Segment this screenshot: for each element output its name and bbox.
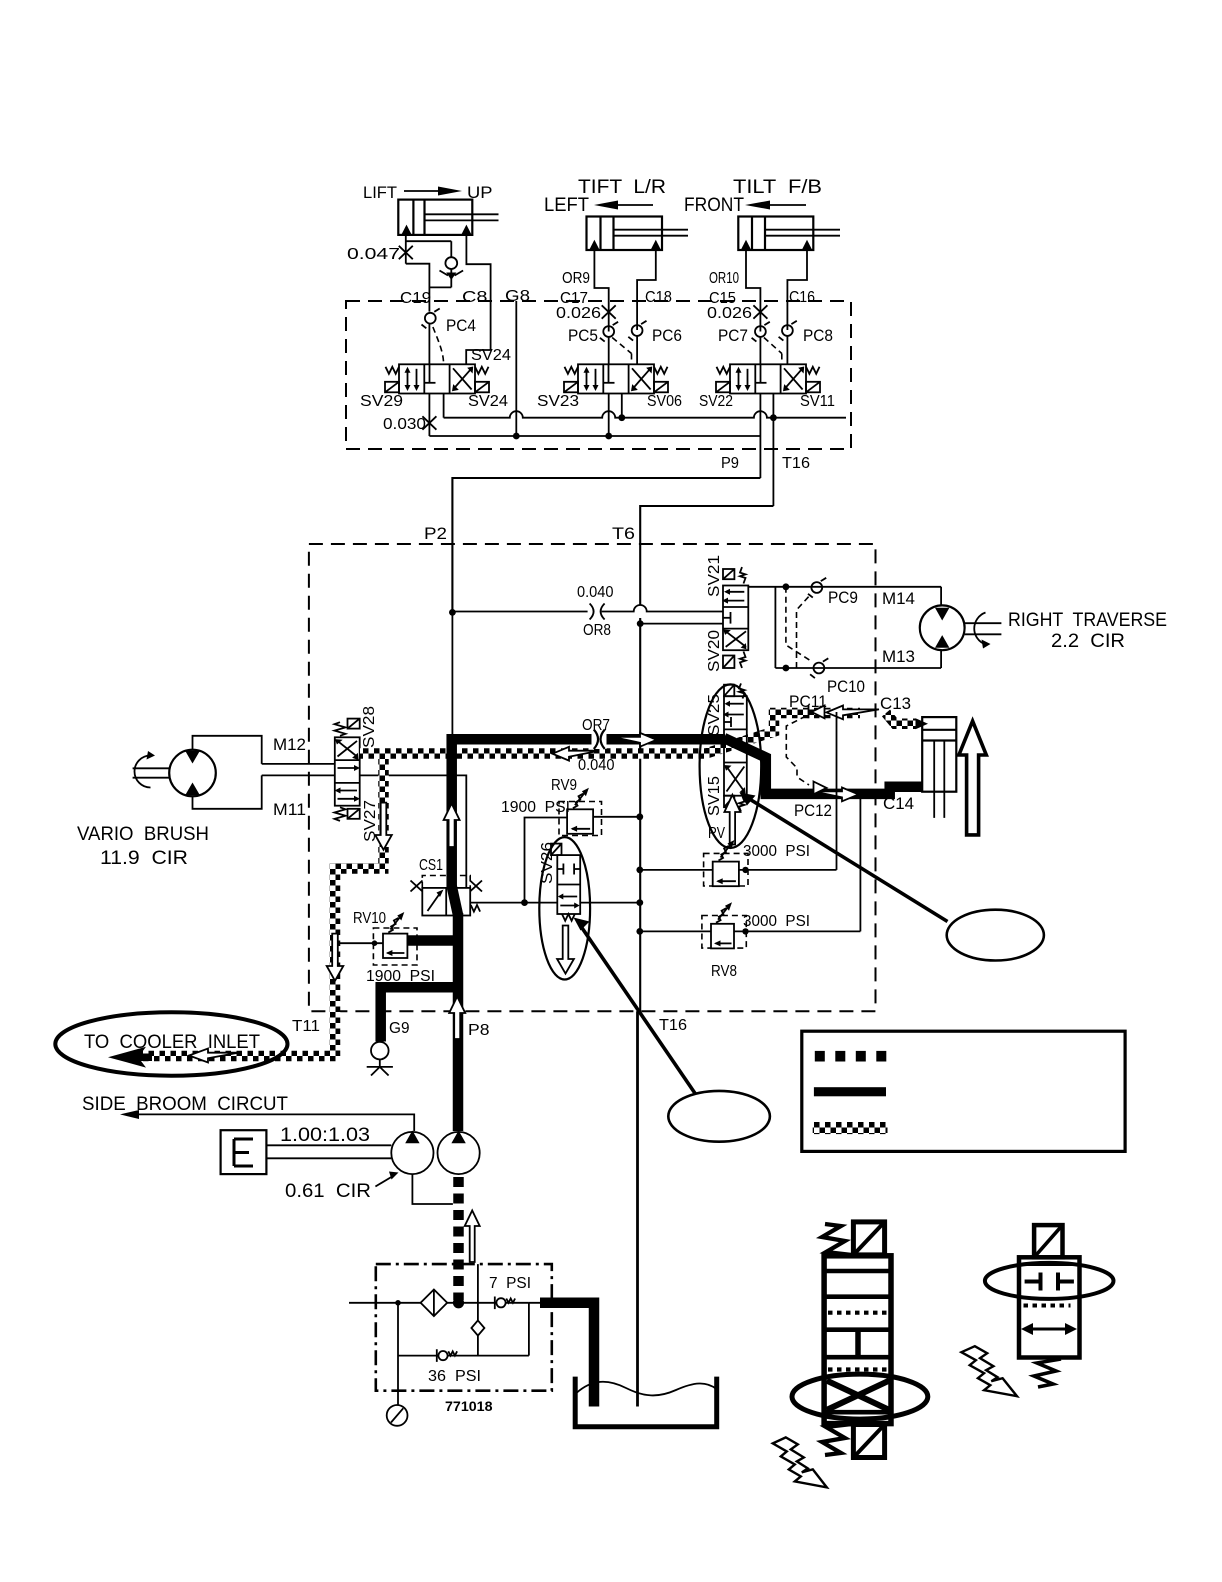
node dots T6 branches: [636, 813, 643, 820]
svg-text:PC11: PC11: [789, 692, 827, 711]
arrow up (in SV15 ellipse): [724, 795, 740, 845]
bus P9 (top manifold): [429, 435, 760, 437]
svg-text:C14: C14: [883, 794, 914, 813]
svg-text:OR7: OR7: [582, 717, 610, 734]
svg-text:RV10: RV10: [353, 910, 386, 927]
wire M11 through to CS1: [360, 775, 467, 888]
orifice OR7: [592, 730, 607, 750]
pump 2 (main): [438, 1131, 480, 1175]
svg-text:M13: M13: [882, 647, 915, 666]
svg-text:C16: C16: [789, 289, 815, 306]
svg-text:LIFT: LIFT: [363, 183, 397, 202]
ellipse TO COOLER INLET: [55, 1012, 287, 1075]
ellipse around SV26: [539, 837, 590, 979]
tank: [575, 1377, 717, 1427]
manifold box P9/T16 (dashed): [346, 301, 851, 449]
svg-text:11.9 CIR: 11.9 CIR: [100, 847, 188, 869]
svg-text:0.026: 0.026: [556, 305, 601, 322]
svg-text:C13: C13: [880, 694, 911, 713]
wire PC8 to valve: [786, 336, 788, 364]
cylinder TILT: [738, 217, 840, 251]
motor VARIO BRUSH: [133, 750, 216, 797]
node OR8 junction: [449, 609, 456, 616]
wire RV7 right: [739, 869, 837, 871]
svg-text:T6: T6: [612, 524, 635, 543]
cylinder TIFT: [587, 217, 689, 251]
lightning bolt (demo small): [961, 1346, 1017, 1396]
solenoid valve SV23/SV06: [564, 364, 668, 393]
thick diagonal through CS1: [452, 886, 458, 915]
arrow LIFT to UP: [404, 190, 444, 192]
wire motor loop left: [774, 587, 776, 668]
strainer: [421, 1290, 448, 1317]
svg-text:C19: C19: [400, 290, 431, 307]
thick RV10 output: [407, 935, 458, 946]
wire motor bracket top: [193, 736, 262, 764]
svg-text:RV8: RV8: [711, 963, 737, 980]
svg-text:OR10: OR10: [709, 270, 739, 287]
black arrowhead into C13 port: [916, 718, 929, 729]
callout line to SV15: [747, 798, 948, 922]
thick flow through SV25 to C14: [724, 738, 922, 794]
wire CS1 to SV26 to T6: [470, 902, 640, 904]
suction line (dotted): [453, 1177, 464, 1300]
wire C13 branch to RV7: [836, 712, 838, 870]
pilot line to PC10: [786, 587, 811, 661]
svg-text:SV22: SV22: [699, 393, 733, 410]
svg-text:TO COOLER INLET: TO COOLER INLET: [84, 1031, 260, 1053]
svg-text:TILT F/B: TILT F/B: [733, 177, 822, 198]
pointer 0.61 CIR: [375, 1176, 393, 1187]
wire motor loop bottom: [775, 667, 941, 669]
callout ellipse 1: [947, 910, 1044, 961]
svg-text:SV24: SV24: [468, 393, 508, 410]
check valve 7 PSI: [495, 1297, 515, 1310]
svg-text:M14: M14: [882, 589, 915, 608]
pilot line to PC9: [797, 594, 812, 668]
relief valve RV8: [702, 902, 746, 948]
legend checkered sample: [813, 1122, 888, 1134]
solenoid valve SV25/SV15: [723, 683, 747, 811]
svg-text:0.030: 0.030: [383, 416, 426, 433]
svg-text:PC7: PC7: [718, 326, 748, 345]
arrow left on C13 line: [827, 706, 880, 720]
svg-text:OR9: OR9: [562, 270, 590, 287]
solenoid valve SV28/SV27: [335, 719, 361, 821]
svg-text:VARIO BRUSH: VARIO BRUSH: [77, 823, 209, 845]
solenoid valve SV26: [551, 844, 580, 921]
wire OR9/C17: [594, 250, 608, 332]
svg-text:PC8: PC8: [803, 326, 833, 345]
callout ellipse 2: [668, 1091, 770, 1142]
wire PC5 to valve: [608, 337, 610, 364]
ellipse around SV25/SV15: [700, 684, 762, 848]
svg-text:PC10: PC10: [827, 677, 865, 696]
wire P2 riser (thin): [451, 612, 453, 736]
svg-text:SV11: SV11: [800, 393, 835, 410]
pilot line PC4: [433, 327, 444, 364]
demo valve large (4/3 solenoid): [822, 1222, 891, 1458]
motor RIGHT TRAVERSE: [920, 605, 1002, 650]
hollow arrow left (cooler): [189, 1049, 238, 1063]
checkered end segment to C13: [886, 713, 916, 724]
legend box: [802, 1031, 1125, 1151]
wire M12: [262, 763, 335, 765]
thick tee to gauge G9: [381, 987, 458, 1041]
lightning bolt (demo large): [773, 1437, 827, 1487]
svg-text:7 PSI: 7 PSI: [489, 1275, 531, 1292]
electric motor box E: [221, 1130, 267, 1174]
pilot line PC5-PC6: [612, 338, 631, 365]
svg-text:SV06: SV06: [647, 393, 682, 410]
node pilot taps: [783, 583, 790, 590]
svg-text:1.00:1.03: 1.00:1.03: [280, 1125, 370, 1146]
arrow down (SV27 return): [375, 803, 392, 850]
wire right return: [528, 1303, 530, 1356]
checkered elbow to T11: [335, 869, 389, 1057]
svg-text:3000 PSI: 3000 PSI: [743, 913, 810, 930]
wire RV10 pilot left: [339, 942, 384, 944]
wire SV22 ports / P9 T16 risers: [759, 394, 761, 479]
svg-text:3000 PSI: 3000 PSI: [743, 843, 810, 860]
pilot line PC7-PC8: [764, 338, 782, 365]
checkered to cooler: [135, 1051, 340, 1062]
wire LIFT right port to C8: [466, 235, 490, 364]
orifice 0.030: [428, 394, 430, 437]
svg-text:FRONT: FRONT: [684, 195, 744, 216]
svg-text:0.047: 0.047: [347, 246, 400, 263]
orifice 0.047: [399, 246, 413, 259]
svg-text:RV9: RV9: [551, 777, 577, 794]
wire RV8 left: [640, 930, 711, 932]
svg-text:C8: C8: [462, 289, 488, 306]
svg-text:T16: T16: [659, 1017, 687, 1034]
check valve PC5: [600, 322, 618, 342]
svg-text:36 PSI: 36 PSI: [428, 1368, 481, 1385]
svg-text:PC6: PC6: [652, 326, 682, 345]
svg-text:SV25: SV25: [706, 694, 723, 736]
wire RV8 right: [734, 930, 860, 932]
svg-text:SV21: SV21: [706, 555, 723, 597]
arrow down (below SV26): [557, 926, 574, 974]
checkered return line (main horizontal): [360, 713, 860, 754]
check valve 36 PSI: [437, 1349, 457, 1362]
node suction junction: [453, 1297, 464, 1308]
svg-text:0.040: 0.040: [577, 584, 614, 601]
svg-text:P8: P8: [468, 1022, 490, 1039]
wire lower branch: [398, 1355, 529, 1357]
svg-text:P9: P9: [721, 455, 739, 472]
check valve PC8: [779, 321, 797, 341]
wire C14 branch to RV8: [859, 794, 861, 931]
check valve PC6: [628, 321, 646, 341]
check valve PC10: [810, 658, 828, 678]
relief valve RV9: [559, 788, 602, 836]
svg-text:0.040: 0.040: [578, 757, 615, 774]
filter box 771018 (dash-dot): [376, 1264, 552, 1391]
wire motor bracket bottom: [193, 775, 262, 808]
check valve PC11: [809, 706, 825, 719]
svg-text:T16: T16: [782, 455, 810, 472]
wire M11: [262, 774, 335, 776]
svg-text:0.61 CIR: 0.61 CIR: [285, 1181, 371, 1202]
cylinder LIFT: [398, 200, 498, 235]
check valve PC7: [752, 322, 770, 342]
wire SV21 to motor loop top: [748, 586, 941, 588]
svg-text:PC9: PC9: [828, 588, 858, 607]
arrow down (T11 return): [327, 934, 344, 981]
svg-text:0.026: 0.026: [707, 305, 752, 322]
svg-text:SV24: SV24: [471, 347, 511, 364]
thick suction from tank: [540, 1303, 594, 1407]
big arrow up (cylinder extend): [959, 721, 986, 835]
junction dots: [513, 433, 520, 440]
wire RV9 right: [593, 816, 640, 818]
shaft E to pumps: [266, 1144, 391, 1146]
bus T16 (top manifold): [444, 411, 846, 417]
arrow up on P8: [449, 997, 465, 1040]
svg-text:CS1: CS1: [419, 857, 443, 874]
orifice 0.026 (OR10): [753, 305, 767, 318]
check valve PC9: [808, 578, 826, 598]
legend thick sample: [814, 1087, 886, 1096]
svg-text:PC5: PC5: [568, 326, 598, 345]
svg-text:TIFT L/R: TIFT L/R: [578, 177, 666, 198]
wire PC4 to valve: [428, 324, 430, 365]
wire side broom arrow: [128, 1114, 414, 1131]
wire C19: [406, 264, 430, 312]
wire P9 to P2: [452, 478, 760, 612]
orifice 0.026 (OR9): [602, 305, 616, 318]
arrow up on P2 riser: [444, 804, 460, 848]
demo valve small (2-position): [1019, 1225, 1080, 1387]
check valve PC12: [814, 782, 827, 795]
wire pump1 bottom loop: [412, 1174, 453, 1204]
wire PC7 to valve: [759, 337, 761, 364]
wire filter inlet: [349, 1302, 529, 1304]
pilot lines PC11/PC12: [786, 716, 809, 785]
svg-text:SIDE BROOM CIRCUT: SIDE BROOM CIRCUT: [82, 1093, 288, 1115]
thick pressure line OR7: [452, 739, 725, 888]
arrow right on C14 line: [814, 788, 859, 802]
wire OR8 line with hop over T6: [452, 605, 723, 612]
callout line to SV26: [580, 925, 697, 1096]
thick riser to P8: [453, 913, 464, 1131]
wire bypass branch: [477, 1264, 479, 1356]
solenoid valve SV21/SV20: [722, 567, 748, 668]
svg-text:SV28: SV28: [361, 706, 378, 748]
wire PC6 to valve: [636, 336, 638, 364]
svg-text:RIGHT TRAVERSE: RIGHT TRAVERSE: [1008, 609, 1167, 631]
wire T16 to T6: [640, 506, 773, 605]
wire SV23 ports: [608, 394, 610, 437]
relief valve RV10: [373, 916, 417, 966]
wire C16: [787, 250, 807, 330]
wire T6 down + tank port of SV21: [639, 618, 641, 1011]
checkered vertical from SV27: [378, 758, 389, 869]
svg-text:P2: P2: [424, 524, 447, 543]
svg-text:2.2 CIR: 2.2 CIR: [1051, 630, 1125, 652]
svg-text:PC4: PC4: [446, 316, 476, 335]
wire T16 to tank (long drop): [636, 1011, 639, 1406]
svg-text:G9: G9: [389, 1020, 410, 1037]
solenoid valve SV29/SV24: [385, 364, 489, 393]
ellipse around demo X section: [792, 1374, 928, 1419]
wire C18: [637, 250, 656, 330]
wire branch to check valve: [406, 240, 452, 242]
wire RV7 left: [640, 869, 713, 871]
relief valve RV7: [704, 840, 748, 886]
vacuum gauge: [387, 1405, 408, 1426]
svg-text:C18: C18: [645, 289, 672, 306]
pump 1 (side broom): [391, 1131, 433, 1175]
wire left drain to vacuum gauge: [397, 1303, 399, 1405]
legend dashed sample: [815, 1051, 887, 1062]
gauge G9: [367, 1042, 393, 1076]
svg-text:T11: T11: [292, 1018, 320, 1035]
svg-text:M12: M12: [273, 735, 306, 754]
arrow FRONT: [766, 204, 806, 206]
orifice OR8: [588, 604, 605, 620]
ellipse around demo small valve: [985, 1263, 1114, 1299]
main manifold box (dashed): [309, 544, 876, 1011]
solenoid valve SV22/SV11: [716, 364, 820, 393]
svg-text:OR8: OR8: [583, 622, 611, 639]
valve CS1: [411, 876, 483, 916]
svg-text:SV29: SV29: [360, 393, 403, 410]
cylinder C13/C14 (vertical): [922, 717, 956, 818]
wire LIFT left port down: [405, 235, 407, 264]
svg-text:PC12: PC12: [794, 801, 832, 820]
svg-text:G8: G8: [505, 288, 530, 305]
wire G8: [515, 301, 517, 436]
wire RV9 left: [525, 818, 568, 903]
svg-text:771018: 771018: [445, 1398, 493, 1414]
check valve (bypass): [471, 1320, 484, 1335]
arrow up (suction): [465, 1211, 480, 1263]
black arrow left (cooler): [108, 1047, 152, 1068]
svg-text:LEFT: LEFT: [544, 195, 589, 216]
arrow LEFT: [614, 204, 653, 206]
arrow right on OR7 line: [612, 733, 657, 747]
wire motor loop right: [940, 587, 942, 668]
wire OR10/C15: [746, 250, 760, 332]
wire SV29 tank port: [443, 394, 445, 418]
svg-text:SV20: SV20: [706, 630, 723, 672]
svg-text:SV15: SV15: [706, 776, 723, 816]
svg-text:1900 PSI: 1900 PSI: [501, 799, 570, 816]
check valve (LIFT bypass): [429, 241, 463, 287]
svg-text:M11: M11: [273, 800, 306, 819]
svg-text:SV23: SV23: [537, 393, 579, 410]
check valve PC4: [422, 309, 440, 329]
arrow left on checkered line: [553, 747, 600, 761]
